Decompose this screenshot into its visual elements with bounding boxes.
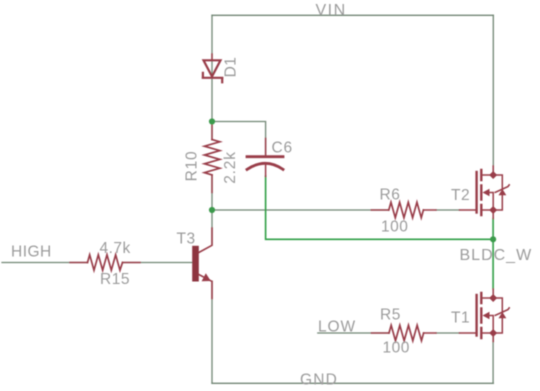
svg-text:LOW: LOW (318, 319, 356, 336)
svg-text:R6: R6 (380, 187, 401, 204)
svg-text:R15: R15 (100, 271, 130, 288)
svg-text:BLDC_W: BLDC_W (460, 247, 533, 264)
svg-text:VIN: VIN (316, 2, 347, 19)
svg-text:C6: C6 (272, 140, 293, 157)
svg-text:T1: T1 (451, 310, 470, 327)
svg-text:4.7k: 4.7k (100, 240, 131, 257)
svg-text:100: 100 (381, 219, 408, 236)
svg-text:R5: R5 (380, 307, 401, 324)
svg-text:D1: D1 (223, 57, 240, 78)
svg-text:T2: T2 (451, 187, 470, 204)
svg-text:T3: T3 (177, 231, 196, 248)
svg-text:R10: R10 (184, 151, 201, 182)
svg-text:HIGH: HIGH (11, 244, 52, 261)
svg-text:100: 100 (383, 340, 410, 357)
svg-text:2.2k: 2.2k (222, 151, 239, 184)
svg-text:GND: GND (300, 372, 338, 389)
